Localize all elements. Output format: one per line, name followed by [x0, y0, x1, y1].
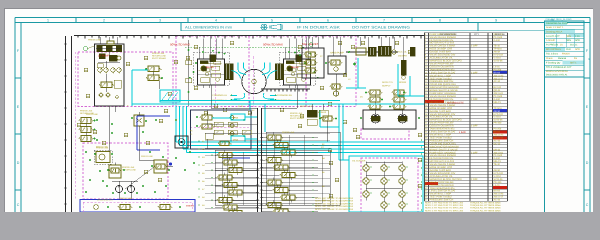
- svg-text:AC-10: AC-10: [494, 199, 501, 202]
- svg-text:A ISSUE: A ISSUE: [546, 39, 555, 42]
- svg-text:NOTE: SET RELIEF TO 210 BAR MA: NOTE: SET RELIEF TO 210 BAR MAX: [315, 202, 354, 205]
- svg-text:P1 PRELIM: P1 PRELIM: [546, 44, 558, 47]
- svg-text:RETURN LINE: RETURN LINE: [152, 55, 166, 58]
- svg-text:TB-40: TB-40: [494, 163, 501, 166]
- table notes block: [425, 202, 501, 213]
- svg-text:WINCH SYSTEM GA: WINCH SYSTEM GA: [546, 70, 568, 73]
- enclosure dashed box aux: [83, 143, 168, 199]
- svg-text:NOTE 4: FIT AND TEST TO SPEC 2: NOTE 4: FIT AND TEST TO SPEC 204: [425, 209, 464, 212]
- svg-text:20411-A3: 20411-A3: [494, 133, 505, 136]
- winch zone feed line: [188, 40, 190, 106]
- svg-text:V-2210: V-2210: [494, 175, 502, 178]
- svg-text:D: D: [586, 161, 589, 165]
- svg-text:2 OFF: 2 OFF: [471, 151, 478, 154]
- svg-text:PART No: PART No: [495, 33, 506, 36]
- third angle projection symbol: [260, 24, 282, 30]
- enclosure divider dashed A: [215, 36, 217, 106]
- bottom dashed enclosure: [83, 202, 192, 212]
- svg-text:NOTE: SET RELIEF TO 210 BAR MA: NOTE: SET RELIEF TO 210 BAR MAX: [315, 197, 354, 200]
- svg-text:N/A OBSOLETE: N/A OBSOLETE: [447, 102, 464, 105]
- svg-text:NOTE: SET RELIEF TO 210 BAR MA: NOTE: SET RELIEF TO 210 BAR MAX: [315, 200, 354, 203]
- bottom blue enclosure box: [80, 200, 195, 213]
- svg-text:RETURN LINE: RETURN LINE: [290, 115, 304, 118]
- feed line dot: [188, 49, 190, 51]
- acc extra block: [410, 47, 415, 56]
- svg-text:TORQUE ALL FITTINGS 40Nm: TORQUE ALL FITTINGS 40Nm: [470, 202, 501, 205]
- svg-text:A6VM: A6VM: [494, 169, 500, 172]
- svg-text:LOWERING CCT: LOWERING CCT: [97, 199, 114, 202]
- parts table header: [440, 33, 506, 36]
- svg-text:20411-01: 20411-01: [494, 92, 504, 95]
- svg-text:SPARE: SPARE: [399, 81, 407, 84]
- svg-text:A1 HYD CCT: A1 HYD CCT: [546, 35, 560, 38]
- svg-text:50%x SD MAX: 50%x SD MAX: [263, 43, 283, 47]
- title column border: [544, 77, 546, 212]
- svg-text:JS: JS: [560, 44, 563, 47]
- svg-text:LP PUMP: LP PUMP: [98, 55, 110, 58]
- svg-text:DRAWING No 20411: DRAWING No 20411: [546, 22, 569, 25]
- drum comb rail: [261, 89, 310, 91]
- enclosure dashed box power unit: [78, 52, 173, 107]
- svg-text:8: 8: [439, 19, 441, 23]
- tank return box: [191, 110, 252, 149]
- zone balloon B1: [84, 47, 88, 51]
- svg-text:TANK: TANK: [233, 117, 239, 120]
- bypass valve: [318, 111, 337, 149]
- svg-text:QR-34: QR-34: [494, 89, 501, 92]
- misc labels: [127, 55, 364, 136]
- svg-text:TP-M16: TP-M16: [494, 107, 503, 110]
- svg-text:V-2210: V-2210: [494, 57, 502, 60]
- drum centreline dashed: [253, 56, 255, 107]
- manifold valve sections: [205, 133, 330, 219]
- svg-text:1:10: 1:10: [575, 35, 580, 38]
- zone numbers top: [47, 19, 554, 23]
- svg-text:20411-17: 20411-17: [494, 77, 504, 80]
- pump stack labels: [382, 81, 407, 87]
- header cell dividers: [180, 23, 182, 31]
- svg-text:250 BAR: 250 BAR: [398, 54, 407, 57]
- svg-text:20411-17: 20411-17: [494, 196, 504, 199]
- tank small cyan box 1: [231, 114, 245, 120]
- svg-text:HYD-102: HYD-102: [494, 113, 504, 116]
- svg-text:PILOT 30 BAR: PILOT 30 BAR: [290, 117, 304, 120]
- svg-text:DWG 20411-HYD A1: DWG 20411-HYD A1: [546, 73, 568, 76]
- parts table grid: [425, 33, 508, 202]
- svg-text:EMERG: EMERG: [186, 205, 194, 208]
- svg-text:P2-0345: P2-0345: [494, 36, 503, 39]
- svg-text:PILOT 30 BAR: PILOT 30 BAR: [152, 57, 166, 60]
- svg-text:Material: Material: [558, 57, 567, 60]
- svg-text:TORQUE ALL FITTINGS 40Nm: TORQUE ALL FITTINGS 40Nm: [470, 204, 501, 207]
- svg-text:PRESS LINE: PRESS LINE: [141, 155, 153, 158]
- svg-text:4: 4: [215, 19, 217, 23]
- micro labels extra: [86, 113, 153, 200]
- svg-text:PRESS LINE: PRESS LINE: [290, 112, 303, 115]
- winch A port dots: [231, 95, 233, 97]
- tank link lines: [212, 117, 231, 119]
- svg-text:NOTE 2: FIT AND TEST TO SPEC 2: NOTE 2: FIT AND TEST TO SPEC 204: [425, 204, 464, 207]
- turn box filter: [175, 136, 188, 148]
- svg-text:BRAKE: BRAKE: [291, 66, 300, 69]
- blue indicator dot: [169, 162, 172, 165]
- svg-text:C: C: [586, 203, 589, 207]
- svg-text:MB-C3: MB-C3: [494, 101, 502, 104]
- svg-text:SV24-06: SV24-06: [494, 119, 504, 122]
- aux valve stack V10: [79, 118, 96, 142]
- svg-text:C: C: [17, 203, 20, 207]
- svg-text:HAND PUMP: HAND PUMP: [330, 51, 344, 54]
- svg-text:5: 5: [271, 19, 273, 23]
- bottom strip symbols: [94, 199, 195, 210]
- svg-text:FORWARD LH: FORWARD LH: [213, 94, 228, 97]
- mid valve cluster V5: [145, 66, 163, 81]
- enclosure divider dashed left: [248, 36, 250, 106]
- tank small cyan box 2: [231, 136, 245, 142]
- svg-text:LS-01: LS-01: [494, 65, 501, 68]
- enclosure dashed box pump pair: [361, 129, 409, 139]
- svg-text:2 OFF: 2 OFF: [471, 98, 478, 101]
- svg-text:HYD-102: HYD-102: [494, 54, 504, 57]
- svg-text:BYPASS: BYPASS: [318, 111, 327, 114]
- green dots extra: [85, 119, 195, 193]
- svg-text:TITLE HYDRAULIC CCT: TITLE HYDRAULIC CCT: [546, 66, 572, 69]
- svg-text:PRESSURE SWITCH: PRESSURE SWITCH: [430, 199, 454, 202]
- svg-text:NOTE: SET RELIEF TO 210 BAR MA: NOTE: SET RELIEF TO 210 BAR MAX: [315, 208, 354, 211]
- svg-text:QTY: QTY: [474, 33, 479, 36]
- svg-text:G-400: G-400: [494, 157, 501, 160]
- svg-text:FINISH: FINISH: [562, 52, 570, 55]
- svg-text:QR-34: QR-34: [494, 148, 501, 151]
- green dots lower left: [89, 117, 170, 194]
- svg-text:2 OFF: 2 OFF: [471, 125, 478, 128]
- svg-text:DRN: DRN: [566, 39, 571, 42]
- svg-text:SHT 1: SHT 1: [570, 61, 577, 64]
- svg-text:2 OFF: 2 OFF: [471, 45, 478, 48]
- accumulator labels: [398, 51, 408, 58]
- svg-text:TP-M16: TP-M16: [494, 48, 503, 51]
- svg-text:HYD-102: HYD-102: [494, 172, 504, 175]
- svg-text:PRESS LINE: PRESS LINE: [120, 197, 132, 200]
- manifold frame: [215, 108, 340, 212]
- svg-text:AC-10: AC-10: [494, 80, 501, 83]
- svg-text:FORWARD RH: FORWARD RH: [277, 94, 292, 97]
- svg-text:DRN: DRN: [566, 35, 571, 38]
- notes block centre: [315, 197, 354, 211]
- svg-text:G-400: G-400: [494, 98, 501, 101]
- svg-text:2: 2: [103, 19, 105, 23]
- green dots table margin: [421, 139, 423, 211]
- svg-text:A6VM: A6VM: [494, 51, 500, 54]
- svg-text:REV DETAILS: REV DETAILS: [546, 48, 561, 51]
- svg-text:ACC 10L: ACC 10L: [398, 51, 408, 54]
- svg-text:2 OFF: 2 OFF: [471, 71, 478, 74]
- enclosure dashed box winch zone: [176, 36, 356, 106]
- svg-text:BS-03: BS-03: [494, 190, 501, 193]
- svg-text:PS-250: PS-250: [494, 128, 502, 131]
- svg-text:20411-A3: 20411-A3: [494, 74, 505, 77]
- svg-text:9: 9: [495, 19, 497, 23]
- parts table row text: [425, 33, 504, 202]
- winch assembly A (left): [194, 39, 234, 89]
- svg-text:3: 3: [159, 19, 161, 23]
- power unit box U1: [95, 41, 125, 106]
- winch B port dots: [275, 95, 277, 97]
- svg-text:PR-350: PR-350: [494, 181, 503, 184]
- svg-text:PR-350: PR-350: [494, 122, 503, 125]
- svg-text:PRESS LINE: PRESS LINE: [96, 146, 108, 149]
- top border comb rail: [74, 36, 424, 39]
- svg-text:7: 7: [383, 19, 385, 23]
- svg-text:DO NOT SCALE DRAWING: DO NOT SCALE DRAWING: [352, 25, 410, 29]
- enclosure dashed box valve grid: [361, 158, 418, 212]
- svg-text:ALL DIMENSIONS IN mm: ALL DIMENSIONS IN mm: [185, 25, 232, 29]
- left sheet border ruler: [64, 36, 71, 212]
- svg-text:20411-A3: 20411-A3: [494, 193, 505, 196]
- svg-text:APR: APR: [575, 39, 580, 42]
- svg-text:PRESS LINE: PRESS LINE: [282, 131, 295, 134]
- svg-text:NOTE 1: FIT AND TEST TO SPEC 2: NOTE 1: FIT AND TEST TO SPEC 204: [425, 202, 464, 205]
- svg-text:DECK CYL: DECK CYL: [382, 81, 394, 84]
- svg-text:BS-03: BS-03: [494, 71, 501, 74]
- enclosure divider dashed right: [305, 36, 307, 106]
- SD control box: [302, 48, 324, 78]
- svg-text:SV24-06: SV24-06: [494, 59, 504, 62]
- svg-text:SV24-06: SV24-06: [494, 178, 504, 181]
- svg-text:OC-12: OC-12: [494, 142, 501, 145]
- winch A green dots: [189, 50, 225, 79]
- svg-text:BS-03: BS-03: [494, 131, 501, 134]
- hand pump group: [328, 56, 346, 96]
- winch B port labels: [277, 94, 292, 102]
- parts table highlight cells: [425, 71, 507, 189]
- svg-text:BRAKE: BRAKE: [206, 66, 215, 69]
- svg-text:P2-0345: P2-0345: [494, 154, 503, 157]
- svg-text:A6VM: A6VM: [494, 110, 500, 113]
- svg-text:AC-10: AC-10: [494, 139, 501, 142]
- outer border frame: [15, 18, 590, 213]
- lower pump group P2 P3: [94, 112, 167, 195]
- svg-text:CHK: CHK: [566, 48, 571, 51]
- svg-text:LS-01: LS-01: [494, 184, 501, 187]
- svg-text:PRESS LINE: PRESS LINE: [86, 113, 98, 116]
- svg-text:NOTE: SET RELIEF TO 210 BAR MA: NOTE: SET RELIEF TO 210 BAR MAX: [315, 205, 354, 208]
- svg-text:PS-250: PS-250: [494, 68, 502, 71]
- svg-text:P2-0345: P2-0345: [494, 95, 503, 98]
- svg-text:D: D: [17, 161, 20, 165]
- magenta stub: [75, 52, 77, 199]
- svg-text:PRESS LINE: PRESS LINE: [88, 39, 101, 42]
- svg-text:MB-C3: MB-C3: [494, 160, 502, 163]
- svg-text:OIL COOLER: OIL COOLER: [352, 160, 366, 163]
- svg-text:50%x SD MAX: 50%x SD MAX: [170, 43, 190, 47]
- green dashed setting line: [185, 46, 305, 48]
- svg-text:PRESS LINE: PRESS LINE: [152, 52, 165, 55]
- svg-text:CAD REF 20411_A1.DWG: CAD REF 20411_A1.DWG: [546, 18, 572, 21]
- blue pilot lines: [137, 116, 250, 158]
- zone letters sides: [15, 49, 590, 207]
- winch B green dots: [288, 50, 319, 79]
- filter cluster upper manifold: [307, 104, 328, 125]
- svg-text:20411-01: 20411-01: [494, 151, 504, 154]
- svg-text:NOTE 3: FIT AND TEST TO SPEC 2: NOTE 3: FIT AND TEST TO SPEC 204: [425, 207, 464, 210]
- svg-text:G-400: G-400: [494, 39, 501, 42]
- svg-text:TOL 0.5mm: TOL 0.5mm: [546, 52, 558, 55]
- svg-text:1: 1: [47, 19, 49, 23]
- svg-text:DESCRIPTION: DESCRIPTION: [440, 33, 457, 36]
- svg-text:20411-17: 20411-17: [494, 136, 504, 139]
- cooler cyan box: [349, 156, 423, 212]
- twin pump stacks: [363, 90, 416, 129]
- svg-text:4 BAR: 4 BAR: [459, 131, 466, 134]
- svg-text:IF IN DOUBT, ASK: IF IN DOUBT, ASK: [297, 25, 341, 29]
- accumulator vert: [401, 56, 406, 79]
- svg-text:TANK: TANK: [233, 139, 239, 142]
- drum hoses: [232, 63, 277, 100]
- accumulator bank: [346, 46, 398, 56]
- cable drum D1: [242, 69, 266, 93]
- cyan drop stubs: [249, 101, 251, 111]
- SD green balloons: [309, 43, 313, 47]
- svg-text:V-2210: V-2210: [494, 116, 502, 119]
- feed line valve 2: [186, 78, 192, 83]
- svg-text:BV-100: BV-100: [494, 86, 502, 89]
- upper manifold row: [205, 122, 257, 135]
- svg-text:PRESS LINE: PRESS LINE: [300, 105, 313, 108]
- feed line valve 1: [186, 60, 192, 65]
- green dot acc: [353, 63, 356, 66]
- svg-text:6: 6: [327, 19, 329, 23]
- green dots pump stacks: [360, 92, 420, 119]
- component balloons: [77, 41, 422, 198]
- winch assembly B (right): [275, 39, 316, 89]
- svg-text:TORQUE ALL FITTINGS 40Nm: TORQUE ALL FITTINGS 40Nm: [470, 207, 501, 210]
- winch A port labels: [213, 94, 228, 102]
- manifold port labels: [198, 140, 326, 207]
- svg-text:APR: APR: [575, 48, 580, 51]
- svg-text:TORQUE ALL FITTINGS 40Nm: TORQUE ALL FITTINGS 40Nm: [470, 209, 501, 212]
- title block: [545, 21, 585, 77]
- header note text: [185, 25, 410, 29]
- svg-text:Scale 1:1 SHT 1: Scale 1:1 SHT 1: [546, 26, 564, 29]
- table red notes: [447, 102, 466, 135]
- cooler valve grid: [363, 162, 408, 212]
- svg-text:F Drafting Qty: F Drafting Qty: [546, 61, 561, 64]
- svg-text:2 OFF: 2 OFF: [471, 178, 478, 181]
- dashed link line mid: [190, 126, 250, 128]
- svg-text:Drawing 2011A: Drawing 2011A: [546, 30, 563, 33]
- svg-text:SUPPLY: SUPPLY: [382, 85, 391, 88]
- header divider line: [181, 30, 545, 32]
- svg-text:Check: Check: [546, 57, 553, 60]
- cyan pipework trunk: [132, 58, 424, 160]
- svg-text:TB-40: TB-40: [494, 45, 501, 48]
- interconnect wires: [100, 37, 404, 200]
